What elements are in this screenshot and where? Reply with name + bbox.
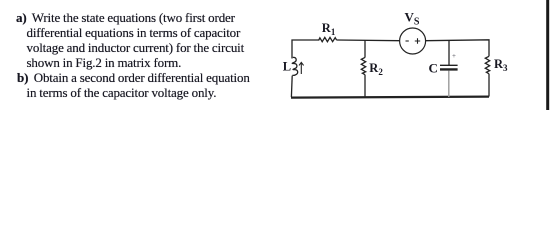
- resistor R3: [485, 56, 489, 74]
- resistor R2: [361, 57, 365, 74]
- svg-text:VS: VS: [405, 9, 420, 27]
- question text line 5: [17, 71, 250, 84]
- question text line 2: [27, 26, 241, 39]
- question text line 1: [16, 11, 235, 24]
- voltage source VS: [400, 28, 426, 54]
- question text line 4: [27, 56, 182, 69]
- svg-text:+: +: [452, 52, 456, 60]
- wire capacitor branch upper: [448, 40, 450, 65]
- inductor current arrow: [299, 62, 304, 74]
- svg-text:R2: R2: [369, 61, 383, 77]
- svg-text:R1: R1: [322, 21, 336, 37]
- wire bottom: [291, 97, 489, 98]
- svg-text:R3: R3: [494, 57, 508, 73]
- capacitor C bottom plate: [440, 68, 458, 70]
- inductor L: [292, 57, 297, 75]
- resistor R1: [319, 37, 337, 41]
- svg-text:L: L: [283, 59, 291, 73]
- wire top-left segment: [292, 40, 319, 59]
- question text line 3: [27, 41, 245, 54]
- wire right lower: [488, 74, 490, 97]
- VS plus sign: [415, 38, 420, 43]
- wire R2 branch upper: [364, 40, 366, 58]
- VS minus sign: [406, 40, 409, 42]
- wire capacitor branch lower: [448, 71, 450, 98]
- question text line 6: [27, 86, 217, 99]
- svg-text:C: C: [429, 61, 438, 76]
- wire R2 branch lower: [364, 75, 366, 97]
- wire top right segment: [426, 40, 489, 57]
- table border line right: [546, 0, 549, 110]
- wire top middle (R1 to VS): [337, 39, 400, 42]
- wire left lower: [290, 76, 293, 97]
- capacitor C top plate: [440, 64, 458, 66]
